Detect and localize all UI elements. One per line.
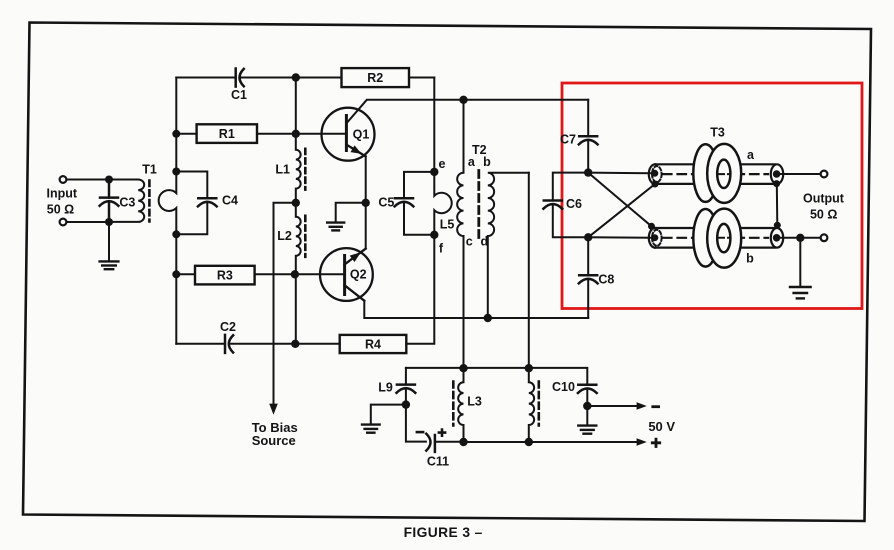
arrow minus: [637, 402, 647, 410]
wire plus row: [464, 441, 638, 443]
ferrite choke L9: [405, 368, 407, 385]
capacitor C5 loop: [404, 172, 434, 198]
svg-text:c: c: [466, 235, 473, 249]
transistor Q1: [322, 108, 375, 161]
svg-text:50 Ω: 50 Ω: [47, 203, 74, 217]
node coax b shield right: [774, 222, 781, 229]
transformer T2 core: [477, 171, 480, 239]
node rail C4 top: [172, 168, 180, 176]
transformer T2 winding b-d: [488, 173, 529, 318]
capacitor C10: [578, 385, 597, 393]
ground (emitter): [327, 223, 344, 231]
node coax a inner left: [651, 170, 658, 177]
capacitor C4 loop: [176, 172, 207, 199]
wire C2 to node: [230, 343, 296, 345]
node Q2 base: [291, 270, 299, 278]
node coax a shield right: [773, 180, 780, 187]
minus sign (supply): [653, 405, 659, 408]
svg-text:Q2: Q2: [350, 268, 367, 282]
node rail R1: [172, 130, 180, 138]
svg-text:C3: C3: [119, 196, 135, 210]
wire Q2 base: [295, 273, 345, 275]
node L3 top: [459, 364, 467, 372]
inductor L2 core: [304, 216, 307, 257]
node L4 bottom: [525, 438, 533, 446]
wire Q1 emitter rail: [365, 156, 367, 202]
svg-text:Output: Output: [803, 192, 845, 206]
wire Q1 collector to top row: [346, 100, 588, 124]
ground (L9): [362, 425, 380, 433]
svg-text:R4: R4: [365, 337, 381, 351]
node T2 a collector: [459, 96, 467, 104]
svg-text:C6: C6: [566, 197, 582, 211]
svg-text:a: a: [747, 148, 755, 162]
plus sign (C11): [439, 430, 445, 436]
ground (output): [790, 287, 811, 298]
svg-text:C7: C7: [560, 133, 576, 147]
svg-text:C2: C2: [220, 320, 236, 334]
wire coax shields right link: [776, 184, 779, 226]
wire node Y to coax a shield: [588, 184, 655, 237]
svg-text:Source: Source: [252, 433, 296, 448]
wire node X to coax a inner: [588, 172, 655, 175]
capacitor C1: [236, 69, 244, 87]
output terminal top: [821, 171, 828, 178]
node bias tap: [292, 199, 300, 207]
wire node Y to coax b inner: [588, 236, 655, 238]
svg-text:L2: L2: [277, 229, 292, 243]
coax line a body: [649, 164, 775, 184]
wire input bottom: [67, 221, 110, 223]
svg-text:f: f: [439, 241, 444, 255]
node Y: [584, 233, 592, 241]
coax line b body: [649, 228, 775, 248]
svg-text:L5: L5: [440, 217, 455, 231]
ground (input): [108, 222, 110, 260]
wire feed row top: [406, 368, 587, 385]
node L4 top: [525, 364, 533, 372]
node output ground: [796, 234, 804, 242]
svg-text:R3: R3: [217, 269, 233, 283]
transformer T1 core: [148, 181, 151, 222]
svg-text:C1: C1: [231, 88, 247, 102]
inductor L4: [529, 368, 534, 442]
arrow to bias source: [269, 404, 278, 415]
svg-text:C4: C4: [222, 193, 238, 207]
highlight box (output balun section): [562, 83, 862, 309]
svg-text:C11: C11: [427, 454, 449, 468]
wire R2 to rail: [409, 77, 434, 79]
node coax b shield left: [648, 223, 655, 230]
node e: [430, 168, 438, 176]
coax a right end: [771, 164, 783, 184]
minus sign (C11): [417, 431, 423, 434]
wire node to R2: [296, 77, 342, 79]
capacitor C2: [225, 335, 233, 353]
capacitor C7: [587, 100, 589, 136]
wire L9 down to plus row: [406, 389, 426, 441]
node coax b inner left: [651, 234, 658, 241]
ferrite bead on coax b: [693, 209, 741, 268]
node L3 bottom: [459, 438, 467, 446]
input terminal top: [60, 176, 67, 183]
wire left rail with T1 secondary loop: [159, 78, 177, 344]
coax b left end cap: [652, 230, 662, 246]
svg-text:Q1: Q1: [353, 128, 370, 142]
svg-text:Input: Input: [47, 187, 78, 201]
node coax a inner right: [773, 170, 781, 178]
node L9: [402, 400, 410, 408]
svg-text:e: e: [439, 157, 446, 171]
svg-text:b: b: [746, 252, 754, 266]
resistor R2: [342, 68, 410, 87]
svg-text:L9: L9: [378, 381, 393, 395]
wire R3 to node: [255, 273, 295, 275]
arrow plus: [637, 438, 647, 446]
wire R1 to node: [257, 133, 296, 135]
svg-text:R2: R2: [367, 71, 383, 85]
svg-text:C8: C8: [598, 273, 614, 287]
resistor R1: [197, 124, 257, 143]
svg-text:a: a: [468, 155, 476, 169]
transistor Q2: [320, 248, 373, 301]
ground (C10): [578, 426, 596, 434]
node T2 d collector: [484, 314, 492, 322]
wire T2 b to L4: [528, 173, 530, 369]
transformer T2 winding a-c: [457, 100, 463, 368]
svg-text:R1: R1: [219, 127, 235, 141]
wire Q1 base: [296, 133, 347, 135]
wire minus row: [587, 405, 638, 407]
node coax a shield left: [652, 181, 659, 188]
node C2 R4: [291, 340, 299, 348]
wire C10 to ground: [586, 390, 588, 425]
node emitter ground: [362, 199, 370, 207]
wire input top: [67, 179, 110, 181]
inductor L3: [458, 368, 463, 442]
wire L9 ground tap: [371, 405, 406, 424]
node rail C4 bottom: [172, 230, 180, 238]
resistor R3: [195, 266, 255, 285]
wire ground tap: [336, 203, 366, 222]
wire Q2 collector row: [364, 301, 588, 318]
capacitor C6 loop: [553, 173, 588, 201]
wire rail to R3: [176, 273, 195, 275]
svg-text:b: b: [483, 155, 491, 169]
wire rail to R1: [176, 133, 196, 135]
wire column C1-R1-L1-L2-R3-C2 with inductors L1 L2: [296, 78, 301, 344]
output terminal bottom: [821, 234, 828, 241]
svg-text:d: d: [480, 235, 488, 249]
wire C1 to node: [240, 77, 295, 79]
svg-text:T3: T3: [710, 125, 725, 139]
capacitor C3: [100, 180, 119, 223]
wire C11 to plus row: [435, 441, 464, 443]
wire output top: [777, 173, 821, 175]
wire C1 row left: [176, 77, 235, 79]
wire node to R4: [295, 343, 339, 345]
svg-text:50 V: 50 V: [648, 419, 675, 434]
svg-text:L3: L3: [467, 395, 482, 409]
wire C2 row left: [176, 343, 225, 345]
svg-text:C5: C5: [378, 195, 394, 209]
inductor L4 core: [537, 382, 540, 426]
input terminal bottom: [60, 219, 67, 226]
node X: [584, 168, 592, 176]
ferrite bead on coax a: [693, 144, 741, 203]
node f: [430, 231, 438, 239]
inductor L3 core: [452, 382, 455, 426]
node input bottom: [105, 218, 113, 226]
plus sign (supply): [652, 439, 659, 446]
svg-text:L1: L1: [275, 163, 290, 177]
node input top: [105, 176, 113, 184]
svg-text:FIGURE 3 –: FIGURE 3 –: [404, 525, 483, 540]
node C10: [583, 402, 591, 410]
wire node X to coax b shield: [588, 173, 651, 227]
wire emitter rail to Q2: [365, 203, 367, 249]
transformer T1 primary: [109, 180, 144, 222]
node rail R3: [172, 270, 180, 278]
wire to bias source: [274, 203, 296, 405]
coax b right end: [771, 228, 783, 248]
capacitor C8: [587, 237, 589, 275]
node C1: [292, 73, 300, 81]
wire output ground stem: [799, 238, 801, 285]
svg-text:50 Ω: 50 Ω: [810, 207, 837, 221]
wire output bottom: [777, 237, 821, 239]
capacitor C11: [426, 434, 435, 452]
wire right rail with L5 loop: [406, 78, 451, 344]
svg-text:C10: C10: [552, 380, 575, 394]
coax a left end cap: [652, 166, 662, 182]
inductor L1 core: [304, 149, 307, 190]
node Q1 base: [292, 130, 300, 138]
node coax b inner right: [773, 234, 781, 242]
svg-text:T1: T1: [142, 162, 157, 176]
resistor R4: [340, 335, 407, 353]
